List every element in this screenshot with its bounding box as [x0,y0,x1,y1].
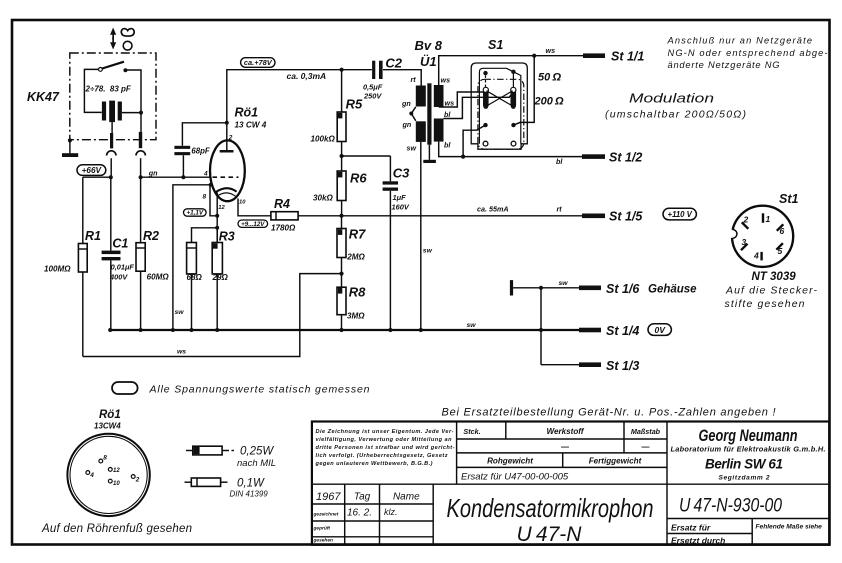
svg-text:100MΩ: 100MΩ [44,265,71,274]
legal text cell [315,429,455,467]
svg-text:rt: rt [557,205,563,214]
svg-text:1μF: 1μF [393,193,407,202]
wire secondary bottom bl to St1/2 [439,142,583,157]
svg-text:Ersetzt durch: Ersetzt durch [671,536,725,546]
svg-text:1780Ω: 1780Ω [271,224,296,233]
svg-text:16. 2.: 16. 2. [347,508,372,519]
wire switch right to capsule right plate [122,70,141,113]
node 0V label oval [648,324,671,336]
svg-text:8: 8 [203,194,207,201]
socket pin 2 [131,475,135,479]
svg-text:KK47: KK47 [27,90,60,104]
svg-text:St 1/5: St 1/5 [609,210,643,224]
svg-text:R6: R6 [350,171,367,186]
capacitor 68pF [182,123,226,177]
svg-text:geprüft: geprüft [313,526,331,532]
svg-text:Kondensatormikrophon: Kondensatormikrophon [447,493,654,523]
svg-text:R5: R5 [346,97,363,112]
svg-text:60MΩ: 60MΩ [147,273,170,282]
svg-text:0,5μF: 0,5μF [363,83,383,92]
terminal St1/4 [579,328,601,333]
svg-text:dritte Personen ist strafbar u: dritte Personen ist strafbar und wird ge… [316,445,455,451]
svg-text:gesehen: gesehen [313,538,334,544]
wire R4 to St1/5 (ca.55mA rt) [298,215,583,217]
svg-text:St 1/6: St 1/6 [606,282,640,296]
resistor R1 100MOhm [82,177,84,243]
svg-text:Stck.: Stck. [463,427,480,436]
svg-text:10: 10 [113,481,120,487]
svg-text:St 1/1: St 1/1 [611,50,644,64]
svg-text:(umschaltbar 200Ω/50Ω): (umschaltbar 200Ω/50Ω) [605,109,746,121]
svg-text:5: 5 [778,246,783,256]
svg-text:2MΩ: 2MΩ [346,253,365,262]
svg-text:C2: C2 [385,56,402,71]
socket pin 10 [108,479,112,483]
svg-text:250V: 250V [363,92,382,101]
legend resistor 0,1W DIN 41399 [185,481,192,483]
svg-text:sw: sw [467,322,477,329]
switch S1 spare contacts (open) [483,141,488,146]
connector pin 1 [762,213,764,223]
socket circle (tube base view) [67,434,149,516]
resistor R8 3MOhm [337,287,346,315]
node +110V label oval [663,208,696,220]
node R5 top [340,68,344,72]
capsule capacitor plates (2-78/83pF) [102,101,122,123]
svg-text:gn: gn [401,99,411,108]
switch S1 bridge (dash-dot) [478,79,524,149]
switch S1 cross wires [487,91,513,106]
svg-text:Georg Neumann: Georg Neumann [699,426,798,445]
svg-text:2: 2 [743,215,749,225]
node +66V label oval [77,165,106,176]
svg-text:rt: rt [411,75,417,84]
resistor 68 Ohm [192,228,218,243]
svg-text:stifte gesehen: stifte gesehen [725,298,805,310]
title block grid lines [312,483,829,485]
svg-text:gn: gn [148,168,158,177]
capsule KK47 enclosure (dash-dot box) [70,53,156,140]
tube cathode arc [215,188,236,192]
diaphragm axis double arrow [110,28,116,50]
connector St1 circle NT3039 [732,206,793,267]
resistor R2 60MOhm [140,177,142,243]
chassis Gehaeuse bar [510,280,513,295]
svg-text:+9...12V: +9...12V [241,221,265,228]
svg-text:29Ω: 29Ω [212,273,229,282]
polar pattern cardioid symbol [121,29,134,37]
node C3 to bus [388,328,392,332]
svg-text:4: 4 [753,251,759,261]
svg-text:10: 10 [239,200,246,206]
resistor R4 1780 Ohm [271,212,298,220]
node +9...12V label oval [238,220,268,227]
svg-text:400V: 400V [109,273,128,282]
svg-text:R1: R1 [85,229,101,243]
svg-text:R8: R8 [349,285,366,300]
svg-text:klz.: klz. [384,507,398,517]
svg-text:vielfältigung, Verwertung oder: vielfältigung, Verwertung oder Mitteilun… [316,437,453,443]
svg-text:U 47-N-930-00: U 47-N-930-00 [679,496,782,517]
capacitor C2 0,5uF 250V [372,61,375,79]
svg-text:gn: gn [402,120,412,129]
node capsule right terminal [139,111,143,115]
svg-text:12: 12 [113,468,120,474]
svg-text:200 Ω: 200 Ω [534,96,565,108]
resistor R7 2MOhm [341,216,343,229]
svg-text:Auf den Röhrenfuß gesehen: Auf den Röhrenfuß gesehen [41,523,192,535]
terminal St1/2 [582,154,605,159]
svg-text:sw: sw [407,144,417,153]
svg-text:ws: ws [441,76,451,85]
svg-text:sw: sw [559,280,569,287]
svg-text:0,01μF: 0,01μF [111,263,135,272]
terminal St1/1 [583,53,605,58]
connector pin 3 [741,244,748,251]
svg-text:Rö1: Rö1 [235,106,259,120]
svg-text:Anschluß nur an Netzgeräte: Anschluß nur an Netzgeräte [667,36,813,46]
svg-text:bl: bl [556,157,563,166]
capsule left terminal bar and plug hook [111,122,113,133]
wire ws R1 bottom return [83,274,342,357]
svg-text:ca. 0,3mA: ca. 0,3mA [287,71,327,81]
svg-text:+110 V: +110 V [668,210,693,219]
node R5/R6/C3 [340,154,344,158]
svg-text:Tag: Tag [354,492,371,503]
node ca.+78V label oval [241,58,275,68]
svg-text:+1,1V: +1,1V [186,210,203,217]
svg-text:St1: St1 [779,192,799,206]
svg-text:R3: R3 [219,230,235,244]
svg-text:2: 2 [135,477,140,484]
tube grid (dashed) pin 4 [213,176,239,178]
polar pattern omni (circle) symbol [123,41,132,50]
svg-text:13 CW 4: 13 CW 4 [235,121,267,130]
legend resistor 0,25W nach MIL [186,450,193,452]
transformer secondary winding [434,85,444,107]
svg-text:Segitzdamm 2: Segitzdamm 2 [719,475,770,482]
svg-text:Laboratorium für Elektroakusti: Laboratorium für Elektroakustik G.m.b.H. [671,445,826,454]
terminal St1/3 [541,364,579,366]
svg-text:gezeichnet: gezeichnet [313,512,339,518]
svg-text:6: 6 [780,226,785,236]
svg-text:1: 1 [766,214,771,224]
socket pin 4 [86,471,90,475]
capacitor C1 0.01uF 400V [110,177,112,250]
svg-text:Die Zeichnung ist unser Eigent: Die Zeichnung ist unser Eigentum. Jede V… [316,429,454,435]
svg-text:Ü1: Ü1 [420,54,437,69]
svg-text:bl: bl [444,141,451,150]
switch S1 lower contacts [483,123,487,127]
svg-text:St 1/3: St 1/3 [606,359,639,373]
ground at KK47 [69,140,71,153]
capacitor C3 1uF 160V [389,156,391,181]
svg-text:St 1/2: St 1/2 [609,151,642,165]
wire secondary bl tap to switch [444,92,514,118]
svg-text:DIN 41399: DIN 41399 [230,490,269,499]
transformer core [427,83,431,144]
svg-text:ws: ws [546,46,556,55]
svg-text:ca.+78V: ca.+78V [244,58,273,67]
svg-text:nach MIL: nach MIL [237,458,276,469]
node R7/R8 ws tap [339,272,343,276]
wire St1/6-St1/4-St1/3 vertical [540,288,542,365]
wire pin10 heater to R4 [238,199,271,216]
svg-text:100kΩ: 100kΩ [311,135,336,144]
svg-text:Werkstoff: Werkstoff [546,427,584,436]
terminal St1/5 [582,214,605,219]
svg-text:3MΩ: 3MΩ [347,312,365,321]
svg-text:13CW4: 13CW4 [94,422,121,431]
svg-text:Ersatz für U47-00-00-005: Ersatz für U47-00-00-005 [461,472,569,483]
svg-text:+66V: +66V [82,166,103,175]
svg-text:—: — [641,443,651,452]
svg-text:ws: ws [445,98,455,107]
wire anode rail ca.+78V [227,70,421,123]
svg-text:S1: S1 [488,38,503,52]
svg-text:4: 4 [203,171,208,178]
svg-text:68Ω: 68Ω [187,273,203,282]
svg-text:68pF: 68pF [191,147,209,156]
node KK47 box corner [68,138,72,142]
transformer primary center tap [411,107,416,121]
socket pin 8 [99,459,103,463]
svg-text:R7: R7 [349,227,366,242]
svg-text:C1: C1 [112,237,128,251]
svg-text:lich verfolgt. (Urheberrechtsg: lich verfolgt. (Urheberrechtsgesetz, Ges… [316,453,448,459]
svg-text:—: — [560,443,570,452]
wire pin12 cathode [216,193,218,243]
svg-text:50 Ω: 50 Ω [538,72,561,84]
pattern switch inside KK47 [99,68,103,72]
svg-text:Berlin SW 61: Berlin SW 61 [705,457,783,472]
svg-text:8: 8 [103,455,107,462]
resistor R6 30kOhm [337,171,346,201]
tube Ro1 13CW4 [210,140,245,201]
wire St1/1 node down to lower-right contact [514,56,535,125]
svg-text:12: 12 [218,205,225,211]
svg-text:0V: 0V [654,325,666,335]
wire secondary top ws to St1/1 [439,56,583,85]
svg-text:R2: R2 [143,229,159,243]
svg-text:Bei Ersatzteilbestellung Gerät: Bei Ersatzteilbestellung Gerät-Nr. u. Po… [442,407,776,419]
node gn grid wire [139,175,143,179]
title block outer border [312,422,829,545]
svg-text:Bv 8: Bv 8 [415,38,443,53]
wire +66V node [83,176,111,178]
wire pin8 ground return [173,185,211,330]
svg-text:St 1/4: St 1/4 [606,324,639,338]
tube heater arc [217,193,236,197]
wire pin8 to pin12 node [210,185,217,216]
svg-text:0,25W: 0,25W [240,446,274,458]
wire primary bottom sw to bus [420,142,422,330]
svg-text:1967: 1967 [316,491,341,503]
svg-text:30kΩ: 30kΩ [313,194,334,203]
svg-text:R4: R4 [274,197,290,211]
wire switch left to capsule left plate [84,69,101,112]
svg-text:Ersatz für: Ersatz für [671,523,711,533]
svg-text:2÷78. 83 pF: 2÷78. 83 pF [85,85,132,94]
node +1.1V label oval [184,209,207,216]
svg-text:änderte Netzgeräte NG: änderte Netzgeräte NG [668,60,780,70]
note Alle Spannungswerte statisch gemessen [112,382,138,394]
svg-text:gegen unlauteren Wettbewerb, B: gegen unlauteren Wettbewerb, B.G.B.) [315,461,433,467]
svg-text:Rö1: Rö1 [99,409,121,421]
svg-text:4: 4 [89,472,94,479]
svg-text:sw: sw [423,248,433,255]
svg-text:Fehlende Maße siehe: Fehlende Maße siehe [756,524,823,531]
switch S1 top contacts [479,68,520,144]
svg-text:Name: Name [393,492,420,503]
svg-text:160V: 160V [392,203,410,212]
ground bus wire sw [110,329,580,331]
ground at transformer core [428,145,430,160]
resistor R5 100kOhm [341,70,343,112]
svg-text:Gehäuse: Gehäuse [648,284,697,296]
resistor R3 29 Ohm [216,228,218,243]
svg-text:Auf die Stecker-: Auf die Stecker- [725,285,818,297]
svg-text:Alle Spannungswerte statisch g: Alle Spannungswerte statisch gemessen [149,384,370,396]
svg-text:Rohgewicht: Rohgewicht [487,457,533,466]
node 68pF junction on grid wire [181,175,185,179]
svg-text:sw: sw [175,309,185,316]
connector pin 2 [742,222,749,229]
svg-text:2: 2 [228,135,233,142]
svg-text:ws: ws [177,349,186,356]
svg-text:0,1W: 0,1W [237,478,265,490]
svg-text:Modulation: Modulation [629,92,714,106]
connector pin 4 [760,252,762,261]
svg-text:C3: C3 [393,166,410,181]
wire switch lower-left contact to St1/2 node [463,125,485,157]
svg-text:NT 3039: NT 3039 [752,271,797,283]
svg-text:Maßstab: Maßstab [631,427,661,436]
svg-text:NG-N oder entsprechend abge-: NG-N oder entsprechend abge- [668,48,828,58]
terminal St1/6 [579,286,601,291]
tube anode plate and lead [220,150,234,153]
switch S1 body outline [471,63,527,149]
wire secondary ws tap to switch [439,92,484,107]
svg-text:Fertiggewicht: Fertiggewicht [589,457,642,466]
connector pin 5 [776,243,783,250]
svg-text:U 47-N: U 47-N [517,523,583,546]
transformer primary winding [416,86,426,107]
connector pin 6 [777,224,784,231]
capsule right terminal bar and plug hook [140,113,142,132]
socket pin 12 [108,468,112,472]
switch S1 moving contacts (pills) [483,88,489,108]
svg-text:ca. 55mA: ca. 55mA [477,205,509,214]
svg-text:3: 3 [742,237,747,247]
